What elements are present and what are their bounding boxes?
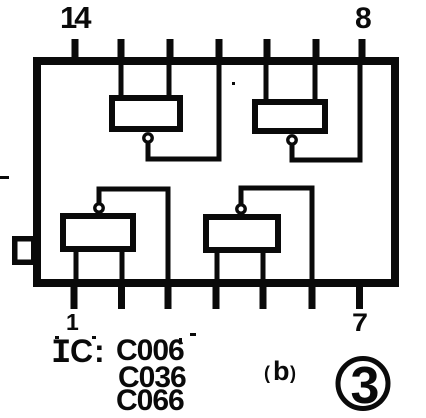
pin 2 (118, 283, 125, 309)
pin 10 (264, 39, 271, 63)
gate N2 (255, 102, 325, 131)
svg-text:(b): (b) (264, 356, 296, 386)
gate N4 (206, 217, 278, 250)
wire N3 input to pin 1 (74, 247, 79, 284)
pin 13 (118, 39, 125, 63)
pin 6 (309, 283, 316, 309)
svg-text:7: 7 (352, 309, 368, 337)
bubble N3 output (95, 204, 103, 212)
wire pin9 to N2 input (313, 62, 318, 101)
bubble N1 output (144, 134, 152, 142)
wire N3 input to pin 2 (120, 247, 125, 284)
IC package body outline (37, 61, 395, 283)
pin 7 (356, 283, 363, 309)
pin 4 (213, 283, 220, 309)
pin 1 (71, 283, 78, 309)
wire N3 output to pin 3 (99, 189, 168, 308)
svg-text:1: 1 (66, 309, 79, 335)
pin 3 (165, 283, 172, 309)
svg-text:8: 8 (355, 2, 372, 35)
package notch (pin-1 index tab) (15, 239, 34, 263)
scan speck below pin 1 (55, 336, 59, 339)
wire pin10 to N2 input (264, 62, 269, 101)
gate N1 (112, 98, 180, 129)
svg-text:C066: C066 (116, 384, 184, 417)
pin 8 (359, 39, 366, 63)
wire N2 output to pin 8 (292, 62, 360, 160)
wire pin13 to N1 input (119, 62, 124, 97)
figure number circle (338, 359, 388, 409)
scan speck apostrophe above C006 (179, 338, 182, 343)
svg-text:I: I (51, 335, 71, 373)
pin 11 (216, 39, 223, 63)
pin 9 (313, 39, 320, 63)
wire N4 output to pin 6 (241, 188, 312, 308)
pin 5 (260, 283, 267, 309)
wire pin12 to N1 input (167, 62, 172, 97)
svg-text:3: 3 (351, 357, 380, 415)
gate N3 (63, 216, 133, 249)
bubble N2 output (288, 136, 296, 144)
wire N4 input to pin 4 (215, 248, 220, 284)
svg-text:C: C (70, 333, 93, 369)
scan speck above C036 line (190, 333, 196, 336)
pin 14 (72, 39, 79, 63)
pin 12 (167, 39, 174, 63)
svg-text:14: 14 (60, 0, 92, 35)
scan speck left margin (0, 176, 9, 179)
wire N1 output to pin 11 (148, 62, 219, 159)
bubble N4 output (237, 205, 245, 213)
scan speck near pin 11 (232, 82, 235, 85)
wire N4 input to pin 5 (261, 248, 266, 284)
scan speck right of pin 2 (92, 336, 96, 339)
